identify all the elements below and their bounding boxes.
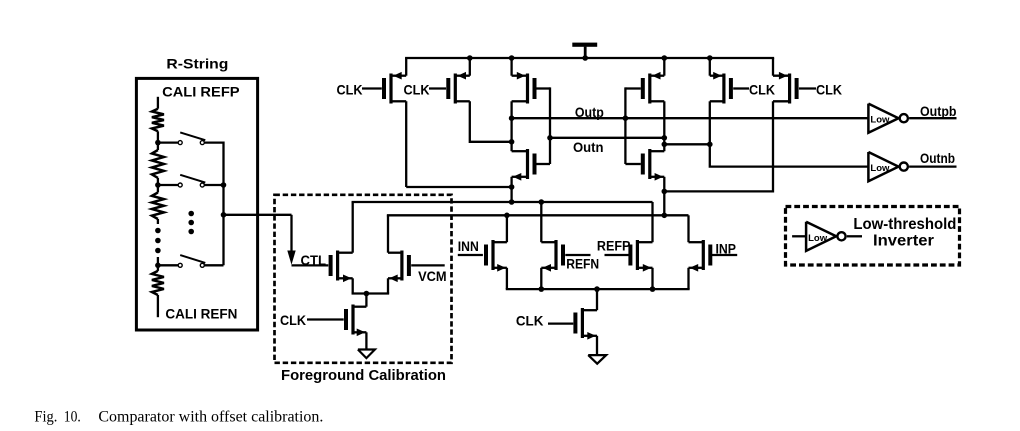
legend inverter symbol <box>806 222 846 251</box>
wire CLK gate lead calibration <box>307 318 344 320</box>
resistor R3 <box>152 193 164 220</box>
svg-text:CLK: CLK <box>816 83 842 98</box>
wire latch right gate column <box>625 87 640 164</box>
wire REFP source down <box>651 268 653 289</box>
wire CALI REFN stub <box>157 295 159 317</box>
wire Outp <box>512 117 869 119</box>
wire tap1 to switch S1 <box>158 141 178 143</box>
wire switch bus <box>222 142 224 266</box>
transistor INP nmos <box>689 240 713 272</box>
wire M1 drain down <box>405 101 407 187</box>
transistor VCM nmos <box>388 251 411 283</box>
node tap1 <box>155 140 161 146</box>
resistor R1 <box>152 109 164 132</box>
wire REFP drain up <box>651 202 653 242</box>
wire Outn node column <box>663 101 665 151</box>
wire calibration tail drain <box>365 294 367 307</box>
node M6 source reset junction <box>662 189 668 195</box>
node Outp column junction <box>509 115 515 121</box>
svg-text:INN: INN <box>458 239 479 254</box>
svg-text:Outn: Outn <box>573 140 604 155</box>
wire calibration tail row <box>352 292 390 294</box>
wire CTL input with arrow <box>287 215 295 265</box>
legend inverter output wire <box>847 235 862 237</box>
svg-text:CLK: CLK <box>749 83 775 98</box>
svg-text:Fig.: Fig. <box>34 408 57 425</box>
wire REFN source down <box>540 268 542 289</box>
wire S3 to bus <box>204 264 223 266</box>
wire reset row left <box>406 186 511 188</box>
wire R3 lower stub <box>157 219 159 224</box>
wire INP drain up <box>687 215 689 242</box>
ground main <box>588 355 606 364</box>
wire R1 to tap1 <box>157 131 159 142</box>
node calibration tail junction <box>364 291 370 297</box>
svg-text:CLK: CLK <box>337 83 363 98</box>
wire tap1 to R2 <box>157 143 159 150</box>
svg-text:INP: INP <box>716 242 737 257</box>
wire tap3 to R4 <box>157 265 159 271</box>
transistor M2 clk pmos <box>446 72 470 104</box>
svg-text:Low: Low <box>870 115 890 126</box>
node tap3 <box>155 263 161 269</box>
wire S2 to bus <box>204 184 223 186</box>
wire VCM drain to node-right rail <box>387 215 389 252</box>
R-String block box <box>136 78 257 330</box>
wire INP gate lead <box>712 254 738 256</box>
svg-text:CALI REFP: CALI REFP <box>162 84 240 99</box>
wire M3 source to rail <box>510 58 512 76</box>
svg-text:CLK: CLK <box>516 313 544 328</box>
switch S3 <box>178 255 205 267</box>
wire CTL source down <box>352 278 354 293</box>
node Outn takeoff junction <box>662 142 668 148</box>
wire M7 source to rail <box>709 58 711 76</box>
transistor M5 latch right pmos <box>641 72 665 104</box>
wire node-left lower rail <box>352 201 653 203</box>
node Outn left junction <box>547 135 553 141</box>
wire CLK M2 gate lead <box>429 87 446 89</box>
ground calibration <box>358 350 375 359</box>
node source row junctions <box>539 286 656 292</box>
wire calibration tail source to ground <box>365 332 367 349</box>
wire CTL drain to node-left rail <box>352 202 354 253</box>
wire M2 drain to Outp node <box>470 101 512 142</box>
node M2 drain junction <box>509 139 515 145</box>
VDD supply symbol <box>572 43 597 58</box>
transistor REFP nmos <box>628 240 652 272</box>
transistor calibration tail nmos <box>344 305 366 337</box>
wire Outnb <box>909 165 956 167</box>
wire REFP gate lead <box>605 254 630 256</box>
node node-right INN junction <box>504 213 510 219</box>
switch S1 <box>178 132 205 144</box>
wire Outp node column <box>510 101 512 151</box>
transistor M6 latch right nmos <box>641 149 665 181</box>
wire Outn <box>550 137 664 139</box>
svg-text:REFP: REFP <box>597 239 631 254</box>
node M6 source row junction <box>662 213 668 219</box>
svg-text:Outpb: Outpb <box>920 104 957 119</box>
wire CTL gate lead <box>292 264 329 266</box>
wire VDD rail <box>405 57 774 59</box>
switch column continuation dots <box>188 211 194 235</box>
wire node-right lower rail <box>387 214 689 216</box>
wire INP source down <box>687 268 689 289</box>
svg-text:10.: 10. <box>64 408 81 425</box>
svg-text:Inverter: Inverter <box>873 233 934 250</box>
svg-text:VCM: VCM <box>418 269 447 284</box>
node reset row left junction <box>509 184 515 190</box>
wire M1 source to rail <box>405 58 407 76</box>
wire tap2 to switch S2 <box>158 184 178 186</box>
svg-text:Foreground Calibration: Foreground Calibration <box>281 368 446 384</box>
wire main tail drain <box>596 289 598 310</box>
node M4 source row junction <box>509 199 515 205</box>
node Outn column junction <box>662 135 668 141</box>
transistor REFN nmos <box>541 240 565 272</box>
wire VCM gate lead <box>411 264 445 266</box>
svg-text:Outnb: Outnb <box>920 151 955 166</box>
svg-text:Comparator with offset calibra: Comparator with offset calibration. <box>98 408 323 425</box>
wire CLK gate lead main <box>548 322 573 324</box>
wire INN drain up <box>506 215 508 242</box>
node VDD rail junctions <box>467 55 713 61</box>
wire M8 drain down and reset row right <box>664 101 773 191</box>
wire M8 source to rail <box>772 58 774 76</box>
node M7 drain junction <box>707 142 713 148</box>
wire M6 source column <box>663 177 665 216</box>
legend dashed box <box>786 207 960 266</box>
wire M7 gate lead <box>733 87 749 89</box>
svg-text:CLK: CLK <box>280 313 306 328</box>
node Outp right junction <box>623 115 629 121</box>
wire M2 source to rail <box>469 58 471 76</box>
wire M4 source column <box>510 177 512 202</box>
wire M7 drain down <box>709 101 711 144</box>
svg-text:CALI REFN: CALI REFN <box>165 307 237 322</box>
wire tap2 to R3 <box>157 185 159 193</box>
wire INN source down <box>506 268 508 289</box>
node R-string output junction <box>221 212 227 218</box>
svg-text:Low: Low <box>870 163 890 174</box>
wire Outpb <box>909 117 956 119</box>
wire M8 gate lead <box>799 87 816 89</box>
wire CALI REFP stub <box>157 97 159 109</box>
svg-text:Low: Low <box>808 233 828 244</box>
transistor M1 clk pmos <box>382 72 406 104</box>
wire M5 source to rail <box>663 58 665 76</box>
svg-text:REFN: REFN <box>566 256 599 271</box>
legend inverter input wire <box>792 235 806 237</box>
wire chain to tap3 <box>157 257 159 265</box>
svg-text:R-String: R-String <box>166 56 228 72</box>
transistor M3 latch left pmos <box>512 72 537 104</box>
inverter U1 low-threshold <box>868 104 908 133</box>
resistor R4 <box>152 271 164 295</box>
wire VCM source down <box>387 278 389 293</box>
wire R-string output to CTL <box>224 214 292 216</box>
transistor CTL nmos <box>329 251 353 283</box>
resistor chain continuation dots <box>155 228 161 254</box>
caption figure number <box>34 408 80 425</box>
node tap2 <box>155 182 161 188</box>
node node-left REFN junction <box>539 199 545 205</box>
wire REFN gate lead <box>565 254 590 256</box>
transistor M8 clk pmos <box>773 72 799 104</box>
inverter U2 low-threshold <box>868 152 908 181</box>
svg-text:Low-threshold: Low-threshold <box>853 216 956 233</box>
wire CLK M1 gate lead <box>362 87 382 89</box>
transistor main tail nmos <box>573 308 597 340</box>
svg-text:CLK: CLK <box>404 83 430 98</box>
transistor M7 clk pmos <box>710 72 733 104</box>
transistor M4 latch left nmos <box>512 149 537 181</box>
transistor INN nmos <box>484 240 507 272</box>
wire INN gate lead <box>458 254 483 256</box>
wire latch left gate column <box>537 87 551 164</box>
wire tap3 to switch S3 <box>158 264 178 266</box>
wire Outn to inverter <box>664 144 868 166</box>
wire S1 to bus <box>204 141 223 143</box>
svg-text:Outp: Outp <box>575 105 604 120</box>
wire input pair source row <box>506 288 690 290</box>
wire REFN drain up <box>540 202 542 242</box>
switch S2 <box>178 175 205 187</box>
resistor R2 <box>152 150 164 178</box>
Foreground Calibration dashed box <box>275 195 452 363</box>
wire main tail source to ground <box>596 336 598 355</box>
wire R2 to tap2 <box>157 178 159 185</box>
node S2 bus junction <box>221 182 227 188</box>
